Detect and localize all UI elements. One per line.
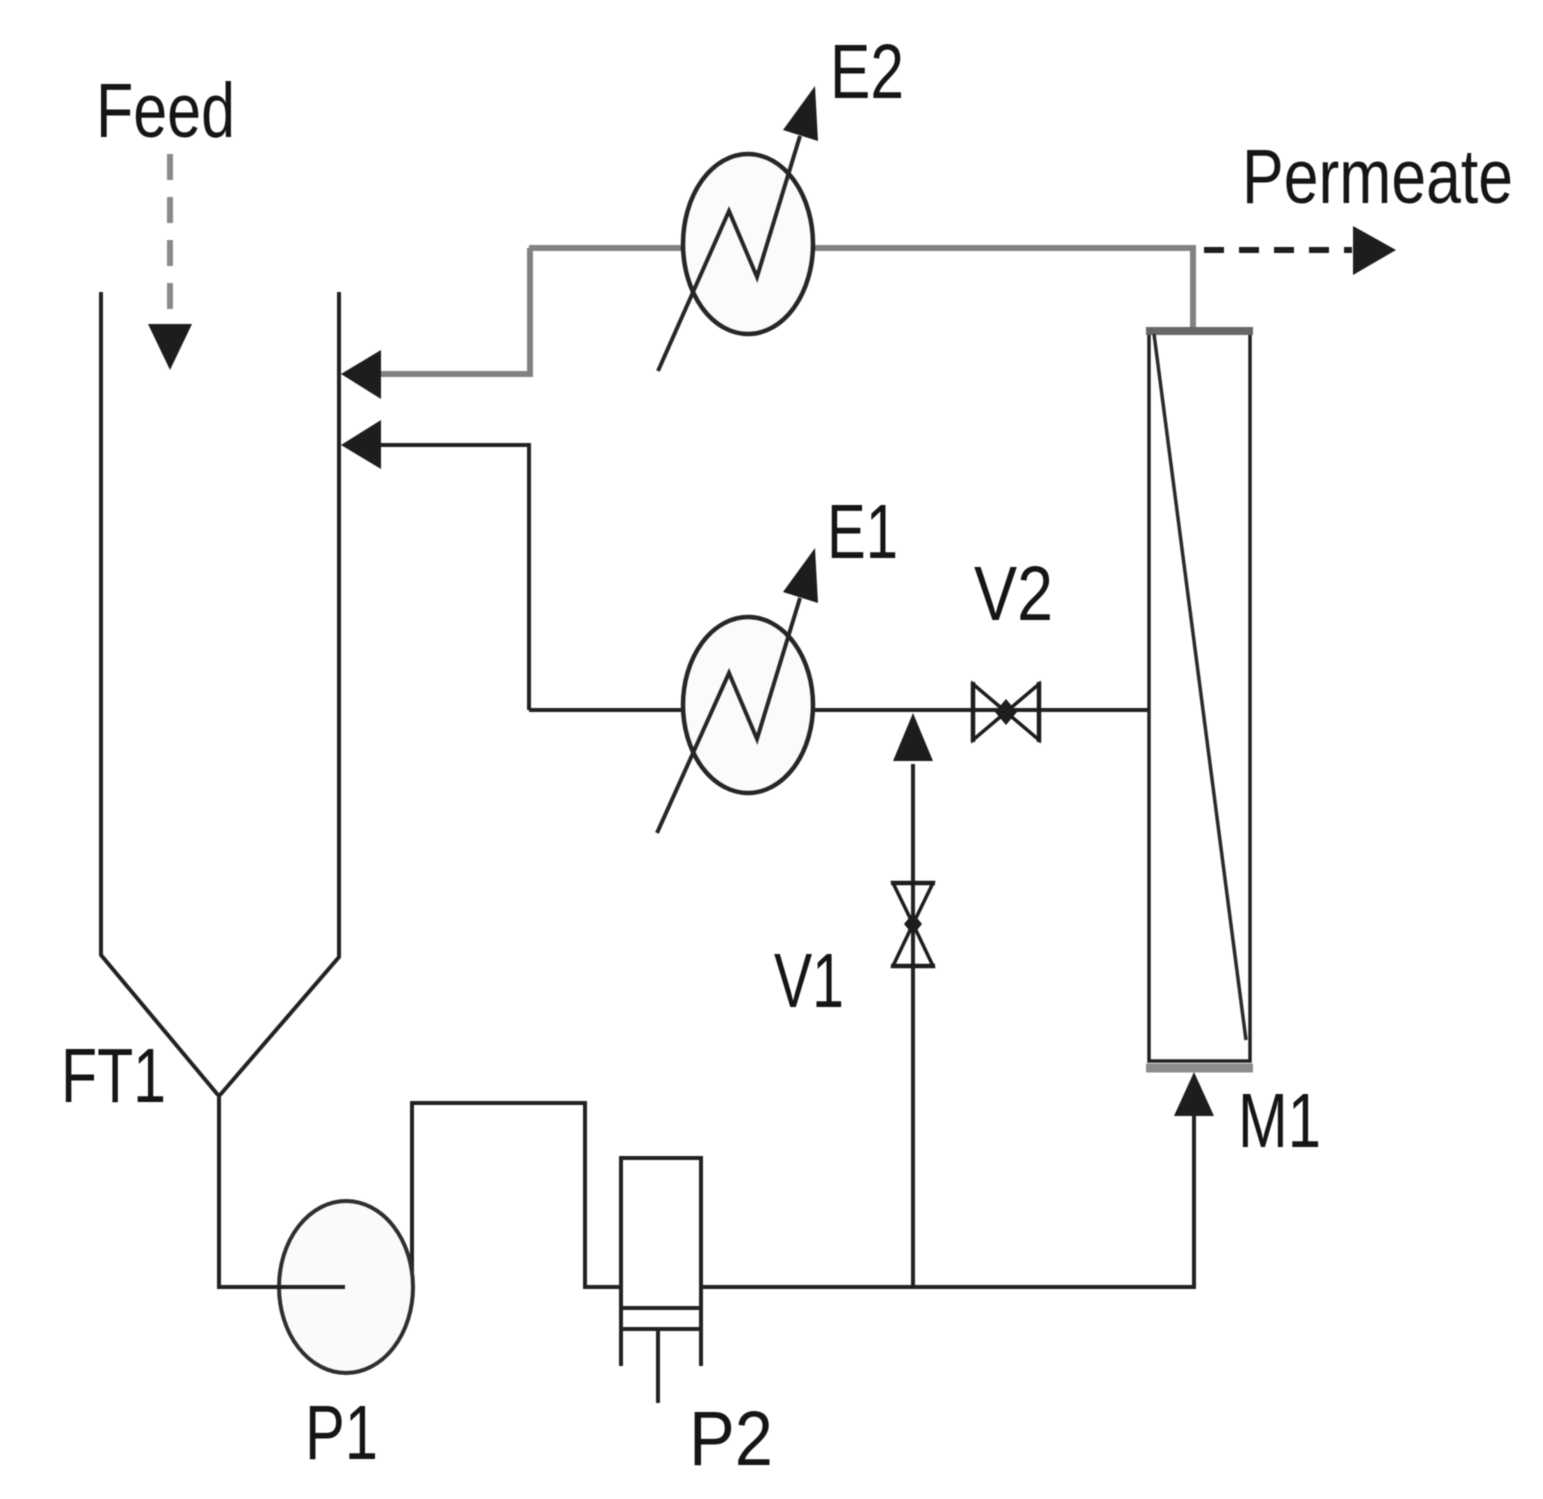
svg-text:E2: E2	[830, 29, 904, 115]
pump P1	[279, 1201, 413, 1373]
svg-text:V1: V1	[774, 938, 844, 1024]
wire E1 main line to membrane	[529, 708, 1148, 712]
wire tank outlet to pump P1	[219, 1094, 345, 1287]
wire P2 outlet to membrane bottom	[701, 1112, 1194, 1287]
arrow into membrane bottom	[1174, 1072, 1214, 1116]
pump P2	[623, 1158, 699, 1366]
svg-text:E1: E1	[827, 489, 898, 575]
wire gray recycle from E2 line to tank	[380, 248, 530, 374]
svg-text:Permeate: Permeate	[1242, 134, 1513, 220]
svg-text:P2: P2	[689, 1396, 773, 1482]
arrow black recycle into tank	[341, 420, 381, 469]
svg-text:P1: P1	[305, 1390, 378, 1476]
arrow gray recycle into tank	[341, 350, 381, 399]
wire V1 branch line	[911, 764, 915, 1287]
wire black recycle from E1 line to tank	[380, 445, 529, 710]
svg-text:FT1: FT1	[61, 1033, 166, 1119]
svg-text:Feed: Feed	[96, 68, 235, 154]
valve V1	[893, 883, 933, 924]
wire P1 outlet loop to P2	[412, 1103, 621, 1287]
valve V2	[973, 684, 1006, 740]
permeate dashed arrow	[1204, 247, 1352, 253]
heat exchanger E1	[683, 617, 813, 793]
svg-text:M1: M1	[1238, 1078, 1321, 1164]
heat exchanger E2	[683, 154, 813, 334]
wire permeate gray line from E2 to membrane top	[529, 248, 1193, 327]
tank FT1	[101, 292, 218, 1095]
arrow V1 branch into E1 line	[893, 713, 933, 761]
feed dashed arrow	[167, 154, 173, 318]
membrane M1	[1149, 329, 1250, 1061]
svg-text:V2: V2	[974, 551, 1053, 637]
